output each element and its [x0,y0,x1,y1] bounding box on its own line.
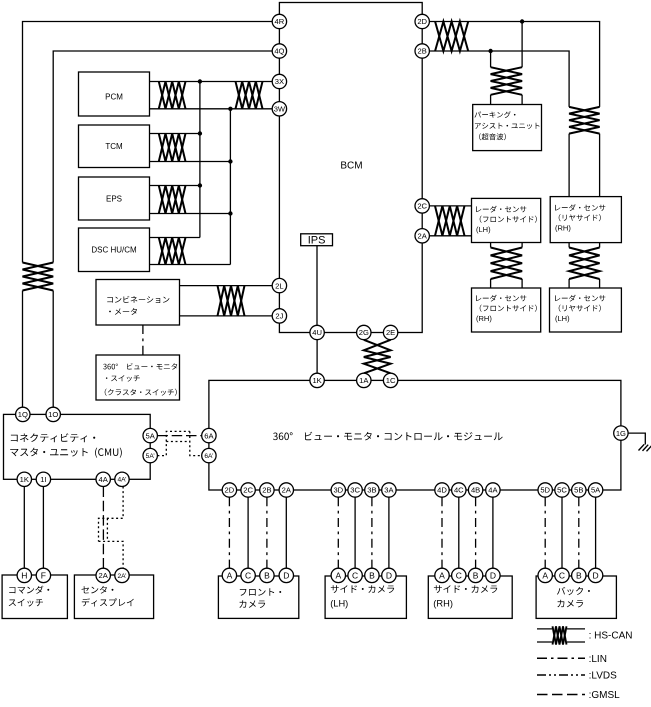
wire LIN module to side camera LH B [371,497,373,568]
svg-text:5A: 5A [146,431,156,440]
twisted pair HS-CAN meter-BCM [218,286,245,316]
svg-text:(LH): (LH) [476,225,491,234]
pin back camera D [588,568,602,582]
pin CMU 1I [36,472,50,486]
label side camera RH line1 [434,585,497,593]
svg-text:EPS: EPS [106,194,122,203]
pin module 3C [348,483,362,497]
svg-text:1Q: 1Q [18,410,28,419]
360 view monitor control module [209,380,621,490]
svg-text:2D: 2D [417,17,427,26]
pin module 1G [614,426,628,440]
pin side camera RH A [435,568,449,582]
pin back camera C [555,568,569,582]
svg-text:PCM: PCM [105,93,123,102]
pin side camera LH A [331,568,345,582]
wire LIN module to front camera B [266,497,268,568]
junction bus A / EPS [198,183,202,187]
label IPS [308,235,326,247]
svg-text:2E: 2E [386,328,395,337]
pin side camera LH D [382,568,396,582]
label display line2 [82,598,134,606]
svg-text:B: B [473,570,479,580]
legend text LIN [589,654,607,665]
svg-text:1K: 1K [20,475,29,484]
pin side camera RH C [452,568,466,582]
twisted pair HS-CAN PCM [159,82,186,109]
wire twist to CMU 1O [52,291,54,408]
svg-text:4A’: 4A’ [117,477,127,484]
twisted pair HS-CAN parking assist [491,67,522,95]
combination meter [96,280,180,326]
svg-text:D: D [283,570,289,580]
svg-text:B: B [576,570,582,580]
wire LIN module to side camera RH B [475,497,477,568]
wire BCM 2C to radar [429,205,471,207]
label radar RSLH line1 [555,295,605,302]
label radar RSRH line1 [555,204,605,211]
svg-text:2D: 2D [225,486,235,495]
IPS relay [301,234,333,246]
pin CMU 5A [143,428,157,442]
svg-text:5A: 5A [591,486,601,495]
wire GMSL CMU 4A to display 2A [102,487,104,569]
legend HS-CAN symbol [537,629,585,642]
pin CMU 4A [96,472,110,486]
wire LVDS jog to display 2A-prime [99,541,124,568]
wire LIN module to back camera B [578,497,580,568]
wire module to side camera LH D [388,497,390,568]
wire DSC CAN-L to bus [150,264,231,266]
pin CMU 1Q [16,407,30,421]
pin module 3D [331,483,345,497]
label radar FSLH line2 [480,216,537,223]
wire TCM CAN-L to bus [150,161,231,163]
pin CMU 4A-prime [115,472,129,486]
pin module 6A-prime [202,448,216,462]
wire BCM 4Q down-left [53,51,272,263]
pin display 2A [96,568,110,582]
svg-text:A: A [227,570,233,580]
wire LIN module to front camera A [228,497,230,568]
pin side camera RH D [486,568,500,582]
svg-text:(RH): (RH) [433,599,453,609]
svg-text:3X: 3X [275,77,284,86]
legend text GMSL [589,690,621,701]
twisted pair HS-CAN EPS [159,186,186,214]
svg-text:6A’: 6A’ [204,453,214,460]
legend LVDS line [537,674,585,676]
twisted pair HS-CAN BCM 2G/2E to module 1A/1C [364,340,391,374]
wire rear radar RH to twist A [568,243,570,248]
svg-text:2A: 2A [282,486,292,495]
ECU TCM [79,125,150,168]
svg-text:4D: 4D [437,486,447,495]
pin BCM 3X [272,74,286,88]
pin BCM 2G [357,325,371,339]
svg-text:2G: 2G [359,328,369,337]
label combination meter line1 [107,296,169,303]
junction 2B line / parking branch [488,49,492,53]
svg-text:1K: 1K [312,376,321,385]
360 view monitor switch [96,355,180,400]
legend LIN line [537,657,585,659]
wire LIN module to side camera LH A [337,497,339,568]
legend text HS-CAN [589,631,633,642]
svg-text:D: D [593,570,599,580]
wire front radar LH to twist A [490,243,492,248]
svg-text:A: A [335,570,341,580]
pin BCM 2C [415,199,429,213]
wire TCM CAN-H to bus [150,133,200,135]
wire twist to rear radar LH A [568,279,570,288]
wire GMSL CMU 5A to module 6A [157,435,201,437]
junction bus A / TCM [198,131,202,135]
label CMU line2 [10,448,122,458]
label PCM [105,93,123,102]
label radar FSLH line3 [476,225,491,234]
legend text LVDS [589,671,617,682]
svg-text:3B: 3B [367,486,376,495]
junction bus B / EPS [228,211,232,215]
label front camera line2 [239,600,265,608]
pin module 2C [241,483,255,497]
radar sensor rear side LH [550,288,622,332]
svg-text::GMSL: :GMSL [589,690,621,701]
wire twist to front radar RH B [521,279,523,288]
wire module 1G to ground [628,433,645,444]
pin back camera A [538,568,552,582]
label combination meter line2 [109,308,137,315]
label 360 module [273,432,503,441]
svg-text:2A: 2A [99,571,109,580]
legend GMSL line [537,694,585,696]
pin module 4D [435,483,449,497]
pin display 2A-prime [115,568,129,582]
wire module to front camera C [247,497,249,568]
pin BCM 2D [415,14,429,28]
svg-text:4R: 4R [275,17,285,26]
twisted pair HS-CAN TCM [159,134,186,162]
svg-text:3C: 3C [350,486,360,495]
wire module to back camera C [561,497,563,568]
wire BCM 2B line [429,51,569,107]
wire twist to front radar RH A [490,279,492,288]
front camera [218,576,298,618]
pin module 5A [588,483,602,497]
svg-text:H: H [21,570,27,580]
label commander line1 [9,586,49,594]
pin module 2B [260,483,274,497]
side camera RH [428,576,512,618]
junction bus B / TCM [228,159,232,163]
wire IPS to BCM 4U [316,246,318,326]
twisted pair HS-CAN rear radar feed [569,107,600,134]
pin module 1C [383,373,397,387]
label front camera line1 [240,588,281,596]
svg-text:4C: 4C [454,486,464,495]
label back camera line1 [557,587,590,595]
pin side camera LH B [365,568,379,582]
label back camera line2 [557,600,583,608]
svg-text:1A: 1A [359,376,369,385]
label EPS [106,194,122,203]
svg-text:C: C [456,570,462,580]
label 360 switch line1 [103,363,177,370]
pin module 1A [357,373,371,387]
svg-text:2B: 2B [418,47,427,56]
label parking line3 [479,133,506,140]
wire to rear radar RH A [568,134,570,197]
wire meter to pin 2J [180,315,273,317]
pin commander F [36,568,50,582]
pin module 4C [452,483,466,497]
svg-text:1C: 1C [386,376,396,385]
svg-text:2C: 2C [243,486,253,495]
wire module to side camera RH D [492,497,494,568]
label side camera LH line1 [331,585,394,593]
wire BCM 2A to radar [429,235,471,237]
wire module to side camera LH C [354,497,356,568]
pin BCM 3W [272,102,286,116]
label DSC HU/CM [91,246,137,255]
wire branch to parking assist B [521,22,523,68]
svg-text:(LH): (LH) [555,314,570,323]
pin module 4A [486,483,500,497]
pin commander H [17,568,31,582]
label radar RSRH line2 [559,214,601,221]
label side camera RH line2 [433,599,453,609]
radar sensor front side RH [472,288,541,332]
svg-text:IPS: IPS [308,235,326,247]
wire CAN bus B vertical [229,109,231,265]
label side camera LH line2 [330,599,348,609]
center display [74,575,153,619]
svg-text:4B: 4B [471,486,480,495]
pin BCM 2A [415,229,429,243]
wire LVDS jog lower rung [166,441,190,443]
junction bus B / PCM / 3W [228,107,232,111]
wire LVDS CMU 5A-prime jog [157,431,189,455]
label radar FSRH line2 [480,305,537,312]
svg-text:4A: 4A [488,486,498,495]
pin front camera D [279,568,293,582]
pin BCM 4R [272,14,286,28]
twisted pair HS-CAN to BCM 3X/3W [236,82,263,109]
twisted pair HS-CAN DSC [159,238,186,265]
svg-text:DSC HU/CM: DSC HU/CM [91,246,137,255]
svg-text:3A: 3A [384,486,394,495]
junction bus A / PCM / 3X [198,79,202,83]
pin module 6A [202,428,216,442]
pin module 1K [310,373,324,387]
svg-text::LVDS: :LVDS [589,671,617,682]
svg-text:F: F [41,570,46,580]
svg-text:1G: 1G [616,429,626,438]
parking assist unit [473,105,542,151]
label parking line1 [475,111,516,118]
connectivity master unit CMU [4,414,151,479]
svg-text:5D: 5D [540,486,550,495]
wire twist to parking assist B [521,95,523,105]
svg-text:2A’: 2A’ [117,573,127,580]
svg-text:4U: 4U [312,328,322,337]
svg-text:5C: 5C [557,486,567,495]
wire CMU 1K to commander H [23,487,25,569]
pin module 2D [222,483,236,497]
svg-text:BCM: BCM [340,160,362,171]
label radar RSLH line2 [559,305,601,312]
wire CAN bus A vertical [199,82,201,238]
svg-text:(RH): (RH) [555,223,571,232]
pin BCM 2B [415,44,429,58]
pin BCM 2J [272,309,286,323]
label radar FSRH line1 [476,295,526,302]
wire LIN meter to 360 view switch [142,325,144,355]
pin front camera C [241,568,255,582]
wire LVDS jog to module 6A-prime [190,431,202,455]
wire LVDS CMU 4A-prime jog down [99,487,124,542]
svg-text::LIN: :LIN [589,654,607,665]
wire PCM CAN-L to bus [150,108,231,110]
svg-text:5A’: 5A’ [146,453,156,460]
label parking line2 [475,123,540,129]
pin CMU 1K [17,472,31,486]
wire branch to parking assist A [490,51,492,67]
pin module 4B [468,483,482,497]
pin module 5B [572,483,586,497]
radar sensor front side LH [472,198,541,242]
label radar RSLH line3 [555,314,570,323]
pin BCM 4U [310,325,324,339]
label commander line2 [9,599,43,607]
wire BCM 2D line [429,22,599,107]
svg-text:D: D [386,570,392,580]
commander switch [2,575,67,619]
svg-text:B: B [264,570,270,580]
pin back camera B [572,568,586,582]
svg-text:2A: 2A [418,232,428,241]
label CMU line1 [11,433,96,442]
svg-text:(RH): (RH) [476,314,492,323]
back camera [536,576,616,618]
wire CMU 1I to commander F [42,487,44,569]
wire PCM CAN-H to bus [150,81,200,83]
wire module to front camera D [285,497,287,568]
wire meter to pin 2L [180,285,273,287]
svg-text:D: D [490,570,496,580]
wire to rear radar RH B [599,134,601,197]
wire DSC CAN-H to bus [150,237,200,239]
pin side camera RH B [468,568,482,582]
ground GND symbol [639,444,651,451]
wire bus B to pin 3W [230,108,272,110]
wire twist to parking assist A [490,95,492,105]
wire rear radar RH to twist B [599,243,601,248]
wire EPS CAN-H to bus [150,185,200,187]
ECU EPS [79,177,150,220]
wire LVDS jog inner rung [106,518,108,541]
wire twist to rear radar LH B [599,279,601,288]
label BCM [340,160,362,171]
svg-text:5B: 5B [574,486,583,495]
pin front camera B [260,568,274,582]
svg-text:C: C [352,570,358,580]
svg-text:1I: 1I [40,475,46,484]
pin module 2A [279,483,293,497]
pin module 3A [382,483,396,497]
radar sensor rear side RH [550,197,621,243]
label 360 switch line2 [106,375,140,382]
twisted pair HS-CAN CMU-BCM [23,263,54,291]
pin module 3B [365,483,379,497]
wire front radar LH to twist B [521,243,523,248]
svg-text:TCM: TCM [105,142,123,151]
svg-text:2L: 2L [275,281,283,290]
legend HS-CAN twist [553,626,567,644]
wire twist to CMU 1Q [22,291,24,408]
svg-text:(LH): (LH) [330,599,348,609]
svg-text:6A: 6A [204,431,214,440]
wire LIN module to side camera RH A [441,497,443,568]
svg-text:3W: 3W [274,105,286,114]
pin CMU 5A-prime [143,448,157,462]
label display line1 [82,586,114,594]
wire bus A to pin 3X [200,81,272,83]
ECU BCM [279,3,422,333]
pin module 5D [538,483,552,497]
svg-text:B: B [369,570,375,580]
label 360 switch line3 [105,389,177,396]
side camera LH [325,576,406,618]
svg-text:A: A [542,570,548,580]
label radar RSRH line3 [555,223,571,232]
pin CMU 1O [46,407,60,421]
svg-text:4A: 4A [99,475,109,484]
wire BCM 4U to module 1K [316,340,318,374]
svg-text:4Q: 4Q [274,47,284,56]
svg-text:: HS-CAN: : HS-CAN [589,631,633,642]
pin side camera LH C [348,568,362,582]
wire BCM 4R down-left [23,22,273,263]
svg-text:3D: 3D [333,486,343,495]
wire LIN module to back camera A [544,497,546,568]
label TCM [105,142,123,151]
svg-text:1O: 1O [48,410,58,419]
pin module 5C [555,483,569,497]
pin BCM 2E [383,325,397,339]
svg-text:C: C [245,570,251,580]
svg-text:A: A [439,570,445,580]
twisted pair HS-CAN front radars [491,248,522,280]
twisted pair HS-CAN BCM-front radar [435,206,465,236]
wire module to back camera D [595,497,597,568]
pin BCM 4Q [272,44,286,58]
svg-text:2J: 2J [275,312,283,321]
label radar FSRH line3 [476,314,492,323]
wire module to side camera RH C [458,497,460,568]
ECU DSC HU/CM [79,228,150,272]
svg-text:2B: 2B [262,486,271,495]
junction 2D line / parking branch [520,19,524,23]
svg-text:2C: 2C [417,202,427,211]
twisted pair HS-CAN rear radars [569,248,600,280]
svg-text:C: C [559,570,565,580]
ECU PCM [79,72,150,116]
twisted pair HS-CAN BCM 2D/2B [435,22,468,52]
wire EPS CAN-L to bus [150,213,231,215]
pin BCM 2L [272,278,286,292]
